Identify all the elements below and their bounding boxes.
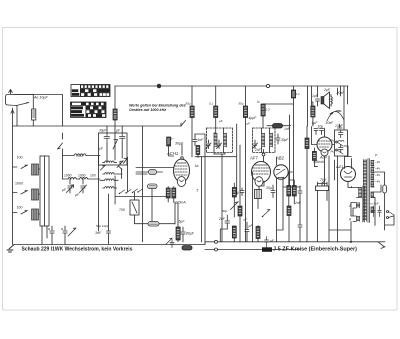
wire xyxy=(263,98,294,186)
coil: osc coil 2 xyxy=(103,173,122,175)
capacitor: AF coupling to output xyxy=(298,223,302,232)
label R3 value xyxy=(239,102,244,106)
trimmer arrow small xyxy=(101,166,106,171)
resistor R4 xyxy=(243,106,247,118)
svg-text:50µ: 50µ xyxy=(222,209,227,213)
svg-text:J-5 ZF-Kreise (Einbereich-Supe: J-5 ZF-Kreise (Einbereich-Super) xyxy=(273,247,357,253)
label 30uF b xyxy=(116,129,121,133)
coil L4 xyxy=(74,154,86,156)
label 2nF2 xyxy=(294,201,302,205)
coil IF1 secondary xyxy=(224,133,227,147)
label 0,3 af xyxy=(266,108,271,112)
coil chain L5 L6 xyxy=(63,177,100,179)
label 30u xyxy=(266,186,272,190)
capacitor 80uF xyxy=(181,227,185,242)
resistor: osc grid leak xyxy=(196,146,200,155)
wire: drop to IF1 xyxy=(215,86,217,106)
osc coupling coil box xyxy=(214,146,225,154)
node: grid cap circle xyxy=(181,157,184,160)
switch: lever 7 mark xyxy=(124,158,128,163)
svg-text:1µ: 1µ xyxy=(236,191,240,195)
label 700 xyxy=(76,153,83,158)
power transformer primary xyxy=(363,160,366,222)
coil: secondary winding group 3 xyxy=(371,175,374,180)
padder box upper xyxy=(99,133,128,165)
wire: output stage verticals from bus xyxy=(308,86,348,130)
switch: wave switch contact chain xyxy=(119,189,143,194)
ground xyxy=(7,245,14,253)
wire xyxy=(233,238,235,242)
svg-text:≈80mA: ≈80mA xyxy=(313,160,324,164)
resistor R6 xyxy=(261,104,265,116)
padder box 700 xyxy=(130,200,139,215)
filter box xyxy=(335,130,348,156)
svg-text:80µF: 80µF xyxy=(186,232,195,236)
capacitor: bottom left of 1050 xyxy=(166,238,174,247)
svg-text:1µ: 1µ xyxy=(257,100,261,104)
label Pu xyxy=(331,139,335,154)
coil: osc coil 3 xyxy=(100,179,118,181)
wire xyxy=(262,116,264,130)
svg-text:10nF: 10nF xyxy=(326,121,335,125)
svg-text:70V: 70V xyxy=(320,178,327,182)
wire: output transformer leads xyxy=(329,187,362,242)
wire: HT top bus xyxy=(115,85,348,87)
trimmer IF1b xyxy=(217,140,222,149)
label AF7 xyxy=(249,156,258,161)
coil IF1 primary xyxy=(214,133,217,147)
capacitor 30uF osc b xyxy=(120,133,126,142)
tube AL4 xyxy=(317,137,332,156)
capacitor 10pF antenna coupling xyxy=(32,109,36,120)
label uF box xyxy=(99,147,104,151)
svg-text:30µF: 30µF xyxy=(175,142,184,146)
label R1 value xyxy=(186,102,191,106)
resistor: AF7 screen R xyxy=(232,188,236,198)
wire xyxy=(288,216,290,242)
tube AB2 xyxy=(274,165,288,179)
wire xyxy=(191,118,193,158)
wire: AB2 drops xyxy=(277,157,293,230)
label 30uF IF2 xyxy=(281,138,289,142)
capacitor Ca1 xyxy=(50,226,54,245)
label 700 xyxy=(119,208,125,212)
coil: AF7 cathode choke xyxy=(255,190,262,199)
capacitor 3nF xyxy=(107,231,111,244)
resistor: AF7 anode load xyxy=(256,227,260,239)
resistor R2 xyxy=(190,106,194,118)
wire xyxy=(62,149,64,179)
capacitor 2nF xyxy=(225,215,230,229)
label 50u 10uF row xyxy=(96,224,109,228)
wire: tap leads xyxy=(371,161,374,187)
label P xyxy=(375,154,378,158)
svg-text:1000: 1000 xyxy=(15,182,23,186)
svg-text:4µµF: 4µµF xyxy=(249,116,258,120)
svg-text:100: 100 xyxy=(17,156,23,160)
label 5uF xyxy=(179,220,186,224)
wire: HT secondary lead xyxy=(371,185,381,225)
svg-text:µF: µF xyxy=(244,218,248,222)
label 2nF AF7 xyxy=(254,148,262,152)
svg-text:1000: 1000 xyxy=(64,174,72,178)
wire: cathode leads xyxy=(168,187,174,203)
wire xyxy=(169,146,174,156)
label 1000 xyxy=(64,174,96,178)
svg-text:AL4: AL4 xyxy=(319,156,327,160)
coil: secondary winding group 4 xyxy=(371,182,374,187)
label uF mains xyxy=(270,239,274,243)
svg-text:µF: µF xyxy=(270,239,274,243)
wire: antenna feed to band switch xyxy=(62,95,64,127)
wire xyxy=(257,199,259,209)
label 5 xyxy=(197,189,199,193)
svg-text:30µ: 30µ xyxy=(266,186,272,190)
svg-text:20nF: 20nF xyxy=(336,91,346,95)
svg-text:AZ1: AZ1 xyxy=(335,164,343,169)
label 20nF xyxy=(336,91,346,95)
label 1w xyxy=(195,164,200,168)
trimmer IF2a xyxy=(253,140,258,149)
wire: grid cap lead xyxy=(181,144,183,159)
wire: AF lines right of AB2 xyxy=(277,186,301,242)
oscillator coupling oval 760 xyxy=(149,170,157,175)
svg-text:1µF: 1µF xyxy=(312,94,319,98)
svg-text:30µF: 30µF xyxy=(99,129,107,133)
svg-text:100: 100 xyxy=(90,174,96,178)
label 2uF xyxy=(323,88,331,92)
coil IF2 primary xyxy=(262,133,265,147)
label 10nF det xyxy=(244,218,248,222)
wire: RF line to gang xyxy=(98,156,100,232)
wire: arrow on left bus xyxy=(11,110,14,113)
resistor 1250 oval xyxy=(148,184,158,189)
switch: mains switch bottom right xyxy=(378,242,385,249)
IF transformer can 2 xyxy=(253,128,276,153)
band coil LW group xyxy=(13,164,41,175)
wire: cap to RF line xyxy=(32,120,34,126)
wire xyxy=(299,232,301,242)
trimmer IF1a xyxy=(206,140,211,149)
antenna Ae xyxy=(6,90,34,106)
resistor: AL4 cathode bias R xyxy=(312,151,316,160)
band coil KW group xyxy=(13,209,41,220)
wire xyxy=(220,229,227,242)
svg-text:µF: µF xyxy=(219,119,223,123)
svg-text:10µ: 10µ xyxy=(318,125,324,129)
wire xyxy=(318,182,328,242)
label 50u bottom xyxy=(222,209,227,213)
wire xyxy=(267,125,291,127)
svg-text:Pu: Pu xyxy=(331,150,335,154)
switch: phone jack xyxy=(387,211,395,219)
svg-text:~4V: ~4V xyxy=(375,180,380,184)
svg-text:700: 700 xyxy=(119,208,125,212)
capacitor 1nF osc xyxy=(193,134,197,146)
resistor: detector load xyxy=(232,226,236,238)
wire xyxy=(239,216,241,242)
power transformer core xyxy=(368,159,370,223)
svg-text:AF7: AF7 xyxy=(249,156,258,161)
label 100 osc tap xyxy=(166,137,174,141)
coil IF2 secondary xyxy=(270,133,273,147)
wire: AF7 anode/cathode drops xyxy=(253,172,265,242)
tube AZ1 rectifier xyxy=(341,167,356,182)
resistor R1 xyxy=(113,109,117,120)
wire: bottom mains line upper xyxy=(205,242,385,245)
table: measurement chart 1 xyxy=(71,85,110,97)
label 13nF xyxy=(335,124,344,128)
trimmer: osc trim 1 xyxy=(117,161,123,170)
label 5uF2 xyxy=(249,224,254,228)
wire: verticals between cans xyxy=(237,124,240,205)
node: AF7 grid cap xyxy=(262,150,265,162)
svg-text:~4V: ~4V xyxy=(375,167,380,171)
resistor 1050 bottom oval xyxy=(182,246,192,250)
wire: antenna coil down lead xyxy=(16,106,18,127)
wire xyxy=(136,171,163,173)
resistor: AL4 cathode R xyxy=(305,138,309,149)
capacitor: AB2 caps xyxy=(271,185,275,198)
IF transformer can 1 xyxy=(207,128,233,153)
wire: right mid verticals xyxy=(329,156,338,242)
label 3nF xyxy=(95,231,102,235)
wire xyxy=(216,118,222,242)
band coil MW group xyxy=(13,189,41,200)
note: italic remark text xyxy=(129,104,186,112)
label 1nF xyxy=(284,127,291,131)
capacitor: filter cap 1 xyxy=(339,130,344,138)
wire xyxy=(139,223,175,225)
wire xyxy=(257,226,259,242)
speaker field arcs xyxy=(327,111,344,121)
label a xyxy=(48,227,63,231)
svg-text:50µ: 50µ xyxy=(186,102,191,106)
wire: left vertical bus xyxy=(12,108,14,245)
svg-text:A: A xyxy=(348,218,351,222)
output transformer core xyxy=(363,186,365,222)
coil: secondary winding group 1 xyxy=(371,161,374,166)
coil: secondary winding group 5 xyxy=(371,192,374,197)
label 30uF mid xyxy=(219,119,223,123)
choke squiggle xyxy=(338,140,344,141)
label 1uF c xyxy=(236,191,240,195)
svg-text:m 5µF: m 5µF xyxy=(370,202,379,206)
label R2 value xyxy=(209,102,214,106)
wire xyxy=(151,189,153,222)
svg-text:1nF: 1nF xyxy=(284,127,291,131)
switch: AF output lever xyxy=(262,210,270,218)
svg-text:Pu: Pu xyxy=(331,139,335,143)
table: measurement chart 2 xyxy=(71,102,107,118)
capacitor: filter cap 2 xyxy=(339,145,344,153)
label taps xyxy=(375,160,380,184)
wire xyxy=(245,118,247,242)
label AB2 xyxy=(275,156,285,161)
resistor R3 xyxy=(214,106,218,118)
wire: right edge drop xyxy=(385,215,394,225)
wire xyxy=(314,148,317,166)
label 1nF xyxy=(198,138,205,142)
label 80mA xyxy=(313,160,324,164)
potentiometer: hum balance xyxy=(316,182,329,191)
label A2 xyxy=(348,218,351,222)
wire: mixer cathode down xyxy=(175,203,178,242)
label 1000 xyxy=(15,182,23,186)
capacitor: tone caps under speaker xyxy=(314,129,324,135)
svg-text:0,3: 0,3 xyxy=(266,108,271,112)
resistor: AB2 load R2v xyxy=(292,186,296,197)
coil: osc coil 4 xyxy=(103,187,117,189)
label ACH1 xyxy=(166,151,178,156)
label 30uF xyxy=(175,142,184,146)
node: mains connector circles xyxy=(215,240,218,243)
svg-text:Ae 10µF: Ae 10µF xyxy=(33,96,48,100)
resistor: decoupling R below mixer xyxy=(176,227,180,240)
switch: Pu contacts xyxy=(336,141,343,154)
capacitor: mains filter caps xyxy=(372,206,382,217)
trimmer C t1 xyxy=(67,179,74,193)
label Ae 10pF xyxy=(33,96,48,100)
coil: speaker voice coil xyxy=(331,97,332,105)
wire: IF2 connections xyxy=(262,128,270,153)
resistor R5 xyxy=(291,90,295,98)
svg-text:0,1: 0,1 xyxy=(209,102,214,106)
resistor: AF7 grid R xyxy=(238,206,242,216)
wire xyxy=(289,172,295,206)
svg-text:5: 5 xyxy=(197,189,199,193)
capacitor 13nF xyxy=(338,124,343,134)
wire xyxy=(312,102,313,126)
wire: HT bus left drop xyxy=(114,86,116,109)
svg-text:a: a xyxy=(48,227,50,231)
svg-text:50µ: 50µ xyxy=(239,102,244,106)
resistor: output grid stopper xyxy=(311,106,315,117)
capacitor: detector cap pair xyxy=(298,186,302,198)
svg-text:3nF: 3nF xyxy=(95,231,102,235)
label 5uF mains xyxy=(370,202,379,206)
label 30uF a xyxy=(99,129,107,133)
tube ACH1 mixer xyxy=(174,159,190,187)
label 10nF xyxy=(326,121,335,125)
resistor: AB2 load R1v xyxy=(287,186,291,197)
wire xyxy=(375,172,385,230)
svg-text:100: 100 xyxy=(17,206,23,210)
wire: AZ1 leads xyxy=(344,146,352,188)
wire: antenna to coupling cap xyxy=(32,95,34,110)
label 10u xyxy=(318,125,324,129)
svg-text:1000: 1000 xyxy=(78,174,86,178)
capacitor 30uF IF2 xyxy=(276,134,280,144)
svg-text:2nF: 2nF xyxy=(254,148,262,152)
label AL4 xyxy=(319,156,327,160)
wire: AL4 leads xyxy=(312,127,335,187)
label 100 xyxy=(17,206,23,210)
wire: IF1 connections xyxy=(214,128,224,153)
wire: antenna top horizontal xyxy=(14,94,63,96)
svg-text:2nF: 2nF xyxy=(294,201,302,205)
resistor: AGC oval dark xyxy=(273,124,283,129)
svg-text:50µ 10µF: 50µ 10µF xyxy=(96,224,109,228)
label 70V xyxy=(320,178,327,182)
wire: drop to mixer anode xyxy=(191,86,193,106)
label A1 xyxy=(348,204,351,208)
wire: drop at AF stage xyxy=(293,86,295,90)
fuse lamp xyxy=(383,185,387,193)
wire: drop to IF2 xyxy=(245,86,247,106)
label AZ1 xyxy=(335,164,343,169)
svg-text:µF: µF xyxy=(247,122,251,126)
wire xyxy=(114,120,116,160)
coil: output transformer sec 1 xyxy=(357,203,360,208)
wire: switch frame to ground bus xyxy=(42,226,47,245)
wire: box to coil xyxy=(107,126,122,162)
wire xyxy=(209,149,232,151)
label 170mA xyxy=(173,201,186,205)
fuse: mains interference suppressor block xyxy=(262,247,272,252)
trimmer C t2 xyxy=(80,179,87,193)
switch: RF line lever xyxy=(181,121,186,127)
wire: osc section bottoms xyxy=(109,194,116,231)
label 2nF xyxy=(218,217,226,221)
band switch frame xyxy=(40,156,49,226)
svg-text:30µF: 30µF xyxy=(281,138,289,142)
trimmer arrow xyxy=(68,228,76,236)
svg-text:Schaub 229 I1WK Wechselstrom,: Schaub 229 I1WK Wechselstrom, kein Vorkr… xyxy=(22,247,133,253)
wire: gang verticals xyxy=(115,157,127,194)
wire: RF distribution line xyxy=(13,125,182,127)
label 100pF xyxy=(247,122,251,126)
label uF xyxy=(62,188,80,197)
resistor: mixer cathode R pair xyxy=(166,188,176,198)
label 1uF b xyxy=(312,121,319,125)
label 1uF xyxy=(312,94,319,98)
svg-text:5µF: 5µF xyxy=(179,220,186,224)
svg-text:0,1: 0,1 xyxy=(296,92,301,96)
wire: bottom mains line lower xyxy=(205,249,300,251)
trimmer: detector diagonal arrow xyxy=(231,202,239,210)
wire xyxy=(330,95,332,107)
coil: output transformer sec 2 xyxy=(357,216,360,221)
wire xyxy=(233,183,235,217)
coil: osc coil 1 xyxy=(103,161,117,163)
wire: AF7 h-line xyxy=(195,156,236,158)
coil: output transformer primary xyxy=(359,188,362,198)
wire: mid horizontals to mixer xyxy=(136,168,174,175)
tube AF7 xyxy=(252,162,271,187)
speaker LS xyxy=(321,92,330,109)
resistor Rg mixer xyxy=(167,137,171,146)
resistor: volume pot xyxy=(287,206,291,216)
capacitor 30uF osc a xyxy=(104,133,110,143)
svg-text:Gerätes auf 1000 kHz: Gerätes auf 1000 kHz xyxy=(129,108,166,112)
svg-text:1w: 1w xyxy=(195,164,200,168)
label 100 xyxy=(17,156,23,160)
svg-text:1nF: 1nF xyxy=(198,138,205,142)
capacitor Ca2 xyxy=(63,226,67,245)
svg-text:~2V: ~2V xyxy=(375,160,380,164)
wire: oscillator coil line xyxy=(63,155,101,157)
wire xyxy=(306,126,308,242)
wire xyxy=(195,134,205,242)
label 80uF xyxy=(186,232,195,236)
resistor 1050 oval horizontal xyxy=(148,222,159,227)
wire: switch chain to cathode xyxy=(115,196,166,198)
svg-text:2nF: 2nF xyxy=(218,217,226,221)
svg-text:a: a xyxy=(61,227,63,231)
svg-text:~6V: ~6V xyxy=(375,173,380,177)
svg-text:ACH1: ACH1 xyxy=(166,151,178,156)
